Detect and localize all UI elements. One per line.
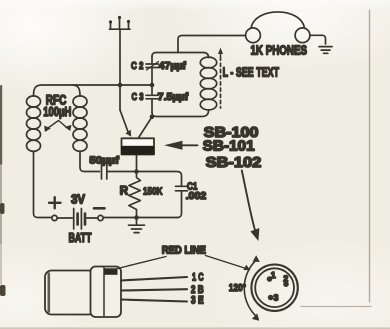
transistor Q1 body [121,138,155,155]
svg-text:1 C: 1 C [192,272,204,284]
svg-text:100µH: 100µH [43,104,71,119]
tank top wire [152,53,209,58]
inductor L winding [200,57,216,110]
svg-text:2: 2 [283,274,288,284]
page column rule right [369,10,371,302]
bottom page edge [0,327,390,329]
tank left branch with C2 C3 [151,57,153,63]
arrow to transistor [164,141,198,150]
svg-text:47µµf: 47µµf [159,60,186,72]
capacitor C3 7.5uuf [132,91,189,103]
stray page line bottom right [301,306,371,308]
svg-text:1: 1 [271,270,276,280]
svg-text:SB-102: SB-102 [206,154,262,171]
svg-text:L - SEE TEXT: L - SEE TEXT [223,64,280,79]
wire phones to ground [310,35,326,44]
label RFC 100uH with pointer arrows [43,92,71,132]
socket base diagram [251,265,297,311]
wire RFC top horizontal to tank branch [34,85,153,96]
wire RFC right bottom to 50uuf [80,152,100,172]
svg-text:1K PHONES: 1K PHONES [251,42,308,57]
capacitor C1 .002 [176,181,207,218]
svg-text:120°: 120° [229,282,246,294]
long arrow SB labels to socket [242,171,260,242]
red line mark on package [105,268,118,275]
svg-text:.002: .002 [186,190,207,202]
ground main [129,218,145,233]
antenna [109,16,130,29]
node R bottom junction [134,215,139,220]
wire junction to C1 [137,172,182,186]
inductor RFC right winding [72,85,87,151]
svg-text:7.5µµf: 7.5µµf [158,91,189,103]
node antenna/RFC junction [118,83,123,88]
svg-text:3: 3 [274,292,279,302]
inductor RFC left winding [27,96,41,151]
wire antenna down to emitter bend [119,29,121,110]
node RFC feed junction [150,83,155,88]
svg-text:3 E: 3 E [191,295,204,307]
wire RFC left bottom to battery [34,152,52,218]
transistor package side view [45,267,187,318]
svg-text:BATT: BATT [69,231,92,245]
lead labels [191,272,204,307]
svg-text:50µµf: 50µµf [89,155,119,167]
tank bottom wire [152,111,209,117]
wire tank top to phones [178,36,245,53]
svg-text:C 3: C 3 [132,91,144,103]
battery BATT 3V [49,192,105,245]
slug-tuning dashed line with arrow [218,48,223,109]
transistor Q1 collector lead [139,117,152,137]
node base junction [134,169,139,174]
svg-text:3V: 3V [71,192,86,206]
120 degree arc with arrowheads [229,255,260,320]
leads [121,277,187,281]
svg-text:C 2: C 2 [131,60,144,72]
label RED LINE with pointers [114,245,251,271]
svg-text:SB-101: SB-101 [203,138,255,155]
headphones 1K PHONES [246,12,310,57]
resistor R 150K [120,155,163,218]
wire battery to bottom rail [103,217,178,219]
ground phones [319,47,332,54]
svg-text:150K: 150K [143,186,163,198]
page edge artifact left [0,85,6,296]
svg-text:R: R [120,186,129,198]
capacitor 50uuf [89,155,136,180]
transistor Q1 emitter lead with arrow [120,110,128,133]
capacitor C2 47uuf (trimmer) [131,60,186,72]
svg-text:RED LINE: RED LINE [162,245,206,257]
labels SB-100 SB-101 SB-102 [203,124,262,171]
node collector junction [150,115,155,120]
